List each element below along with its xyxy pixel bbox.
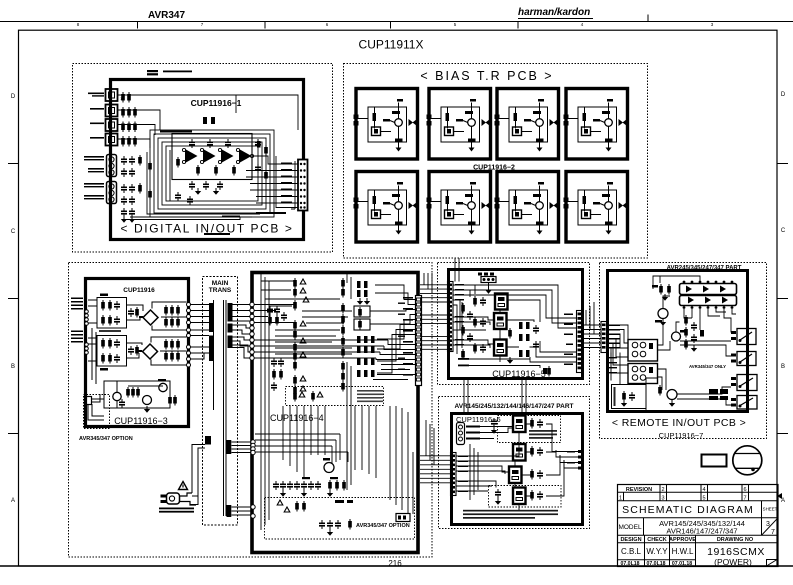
standby supply circuit xyxy=(104,379,177,413)
op-amp pin circles xyxy=(182,148,253,163)
trigger jack SW2 xyxy=(731,352,756,366)
input terminals left xyxy=(85,310,89,355)
relay snubber parts xyxy=(491,418,543,505)
buffer transistor Q31 xyxy=(672,330,687,341)
coax connector J5 xyxy=(84,155,117,177)
svg-text:CUP11916−5: CUP11916−5 xyxy=(492,369,546,379)
model row xyxy=(618,534,779,536)
transistor Q11 xyxy=(143,396,152,405)
schematic diagram row xyxy=(618,517,779,519)
svg-text:< BIAS T.R PCB >: < BIAS T.R PCB > xyxy=(420,69,553,83)
legend text lines xyxy=(463,510,558,519)
svg-text:C.B.L: C.B.L xyxy=(621,547,642,556)
status text block xyxy=(709,389,728,400)
svg-text:A: A xyxy=(11,498,15,504)
svg-text:C: C xyxy=(11,229,16,235)
svg-text:07.0L18: 07.0L18 xyxy=(646,561,665,567)
svg-text:A: A xyxy=(781,498,785,504)
chassis ground circle symbol xyxy=(733,446,762,475)
trigger board wiring xyxy=(456,424,578,510)
line filter block 2 xyxy=(97,336,139,371)
svg-text:CHECK: CHECK xyxy=(647,537,667,543)
remote input header xyxy=(601,322,620,353)
secondary winding W4 xyxy=(228,324,233,333)
trigger jack SW1 xyxy=(731,329,756,345)
supply caps for IC xyxy=(652,284,671,301)
AC input terminals xyxy=(250,302,255,518)
lower bus wires xyxy=(255,362,416,530)
svg-text:CUP11916−1: CUP11916−1 xyxy=(191,98,242,108)
wire bus CUP11916-5 to CUP11916-6 xyxy=(464,379,526,414)
relay PCB CUP11916-6 xyxy=(439,397,590,529)
wire stubs bias PCB to CUP11916-5 xyxy=(455,258,459,282)
ic sub-board outline xyxy=(172,134,252,180)
power supply PCB CUP11916 xyxy=(79,279,189,443)
fuse F5 group xyxy=(293,375,306,396)
output connector J7 xyxy=(281,160,308,211)
transformer core xyxy=(223,300,225,516)
wire bus CUP11916-5 to remote PCB xyxy=(583,302,602,348)
relay drive parts xyxy=(461,296,486,360)
relay RL1 xyxy=(495,294,508,310)
warning triangle xyxy=(179,482,188,490)
wire loops bus xyxy=(118,95,299,220)
svg-text:1: 1 xyxy=(619,496,622,502)
svg-text:< REMOTE IN/OUT PCB >: < REMOTE IN/OUT PCB > xyxy=(612,417,746,429)
buffer transistor Q30 xyxy=(655,309,668,326)
names row xyxy=(618,559,696,561)
aux connector bottom right xyxy=(396,514,410,522)
relay driver transistor Q20 xyxy=(323,458,334,473)
smoothing capacitors bank 1 xyxy=(164,305,180,328)
primary winding W2 xyxy=(209,336,214,362)
rectifier diodes top xyxy=(357,281,370,305)
input filter parts xyxy=(121,155,152,223)
svg-text:CUP11911X: CUP11911X xyxy=(359,38,424,52)
protection diodes xyxy=(507,322,539,364)
bias transistor cell Q2 xyxy=(427,89,491,160)
svg-text:REVISION: REVISION xyxy=(626,487,652,493)
svg-text:TRANS: TRANS xyxy=(209,287,232,294)
trigger jack SW3 xyxy=(731,375,757,391)
internal wiring harness xyxy=(254,273,416,395)
buffer transistor Q32 xyxy=(658,385,677,407)
svg-text:AVR145/245/132/144/146/147/247: AVR145/245/132/144/146/147/247 PART xyxy=(454,403,573,410)
wires transformer to CUP11916-4 xyxy=(232,305,253,516)
op-amp U4 xyxy=(239,149,252,163)
bridge rectifier D1 xyxy=(139,310,158,325)
optical connector J2 xyxy=(90,105,118,117)
control header CN8 xyxy=(451,453,469,496)
svg-text:B: B xyxy=(781,364,785,370)
svg-text:H.W.L: H.W.L xyxy=(672,547,694,556)
svg-text:SHEET: SHEET xyxy=(763,507,778,512)
svg-text:7: 7 xyxy=(743,496,746,502)
bottom cap C50 xyxy=(543,366,551,377)
svg-text:AVR345/347 ONLY: AVR345/347 ONLY xyxy=(689,364,726,369)
design/check/approve headers xyxy=(618,542,779,544)
speaker header CN6 xyxy=(478,273,496,294)
option relay dotted box xyxy=(489,486,562,508)
smoothing capacitors bank 2 xyxy=(164,339,180,362)
ic decoupling xyxy=(175,139,268,205)
op-amp U2 xyxy=(203,149,216,163)
svg-text:7: 7 xyxy=(771,529,775,536)
optical connector J1 xyxy=(88,89,118,101)
bias transistor cell Q7 xyxy=(495,172,559,243)
svg-text:3: 3 xyxy=(661,496,664,502)
aux output pins xyxy=(567,450,583,470)
relay RL2 xyxy=(494,313,507,329)
mains input labels xyxy=(71,298,83,343)
svg-text:AVR347: AVR347 xyxy=(148,10,185,21)
zone letters left xyxy=(11,92,786,504)
fuse F2 group xyxy=(293,297,309,311)
optical connector J4 xyxy=(90,134,118,146)
bias transistor cell Q3 xyxy=(495,89,559,160)
op-amp IC U11 xyxy=(680,296,737,309)
bias transistor cell Q1 xyxy=(354,89,418,160)
regulator sub-circuit dotted box xyxy=(286,387,384,406)
caps bank mid xyxy=(271,358,284,391)
bottom margin rule xyxy=(0,565,793,567)
net labels remote left xyxy=(609,357,617,373)
zone digits top xyxy=(77,22,714,27)
svg-text:B: B xyxy=(11,364,15,370)
revision rows xyxy=(618,491,779,493)
relay RL4 xyxy=(513,416,526,433)
power PCB CUP11916-4 xyxy=(252,273,418,553)
svg-text:5: 5 xyxy=(702,496,705,502)
bias transistor cell Q4 xyxy=(564,89,628,160)
relay PCB CUP11916-5 xyxy=(438,263,590,385)
plug rating text xyxy=(159,508,194,513)
transistor Q12 xyxy=(159,383,167,391)
top margin rule xyxy=(0,15,793,29)
small parts mid board xyxy=(203,117,286,235)
wire bus CUP11916-4 to CUP11916-5 xyxy=(420,273,448,349)
main transformer xyxy=(203,277,238,526)
remote in/out PCB CUP11916-7 xyxy=(600,263,767,441)
opto coupler bank U13 xyxy=(628,364,658,384)
relay RL7 xyxy=(513,488,526,505)
bias transistor cell Q5 xyxy=(354,172,418,243)
svg-text:D: D xyxy=(781,92,786,98)
op-amp IC U10 xyxy=(680,281,737,295)
note text above board xyxy=(147,70,192,75)
wires plug to transformer xyxy=(190,445,205,505)
svg-text:07.01.18: 07.01.18 xyxy=(672,561,692,567)
caps bank left xyxy=(267,306,287,326)
svg-text:SCHEMATIC DIAGRAM: SCHEMATIC DIAGRAM xyxy=(622,504,754,516)
decoupling caps C1-C8 xyxy=(120,92,137,147)
svg-text:4: 4 xyxy=(702,487,705,493)
relay board wiring xyxy=(453,285,577,368)
trigger input jacks xyxy=(457,423,481,445)
svg-text:07.0L18: 07.0L18 xyxy=(620,561,639,567)
transistor Q10 xyxy=(113,392,121,400)
svg-text:AVR146/147/247/347: AVR146/147/247/347 xyxy=(666,527,737,536)
option info dotted box xyxy=(498,416,561,443)
svg-text:(POWER): (POWER) xyxy=(714,557,752,567)
connector net labels xyxy=(398,297,413,376)
svg-text:C: C xyxy=(781,228,786,234)
svg-text:W.Y.Y: W.Y.Y xyxy=(646,547,668,556)
relay board input header CN5 xyxy=(448,282,465,352)
svg-text:CUP11916: CUP11916 xyxy=(123,287,155,294)
svg-text:216: 216 xyxy=(388,559,402,568)
relay output header CN7 xyxy=(564,311,583,373)
spare part rectangle symbol xyxy=(702,455,727,467)
fuse F1 group xyxy=(293,278,306,298)
zone ticks sides xyxy=(8,164,788,434)
primary tap block xyxy=(205,436,211,445)
svg-text:APPROVE: APPROVE xyxy=(669,537,696,543)
wires CUP11916-3 to transformer xyxy=(191,305,210,360)
svg-text:D: D xyxy=(11,94,16,100)
svg-text:AVR345/347 OPTION: AVR345/347 OPTION xyxy=(356,523,410,529)
option sub-board dotted xyxy=(265,498,415,540)
wires rectifier to terminals xyxy=(88,300,187,384)
line filter block 1 xyxy=(97,294,139,333)
bias transistor cell Q6 xyxy=(427,172,491,243)
snubber block xyxy=(354,306,370,330)
ir emitter box xyxy=(612,385,647,409)
optical connector J3 xyxy=(90,119,118,131)
svg-text:6: 6 xyxy=(743,487,746,493)
relay RL5 xyxy=(513,444,526,461)
svg-text:CUP11916−7: CUP11916−7 xyxy=(659,431,704,440)
svg-text:DRAWING NO: DRAWING NO xyxy=(717,537,754,543)
AC power plug P1 xyxy=(161,493,197,505)
fuse F6 column xyxy=(341,278,345,392)
secondary winding W3 xyxy=(228,303,233,322)
relay RL3 xyxy=(494,340,507,356)
remote board wiring xyxy=(607,276,736,412)
svg-text:DESIGN: DESIGN xyxy=(620,537,641,543)
bias transistor cell Q8 xyxy=(564,172,628,243)
primary winding W1 xyxy=(209,303,214,332)
label strip xyxy=(160,131,192,133)
center filter parts xyxy=(684,315,704,352)
fuse F3 group xyxy=(293,320,306,340)
svg-text:MAIN: MAIN xyxy=(212,280,229,287)
fuse F4 group xyxy=(293,338,306,371)
option connector box xyxy=(84,394,110,429)
relay RL6 xyxy=(509,467,522,484)
filter cap row xyxy=(273,477,346,497)
svg-text:2: 2 xyxy=(661,487,664,493)
wires to output connector xyxy=(246,156,298,209)
secondary winding W7 xyxy=(227,505,232,517)
secondary winding W6 xyxy=(227,440,232,454)
svg-text:CUP11916−3: CUP11916−3 xyxy=(114,416,168,426)
opto coupler bank U12 xyxy=(628,340,658,362)
diode matrix right xyxy=(357,336,375,377)
svg-text:AVR345/347 OPTION: AVR345/347 OPTION xyxy=(79,436,133,442)
svg-text:MODEL: MODEL xyxy=(618,524,642,531)
logo harman/kardon xyxy=(518,7,593,19)
output terminals to transformer xyxy=(187,303,191,368)
wire bus CUP11916-4 to CUP11916-6 xyxy=(420,420,451,483)
coax connector J6 xyxy=(84,182,117,204)
trigger jack SW4 xyxy=(731,396,757,410)
svg-text:3: 3 xyxy=(766,521,770,528)
right border arrow marker xyxy=(777,493,782,499)
bridge rectifier D2 xyxy=(136,344,158,359)
op-amp U1 xyxy=(185,149,198,163)
secondary winding W5 xyxy=(228,336,233,349)
op-amp U3 xyxy=(221,149,234,163)
pull-up labels xyxy=(458,358,469,366)
svg-text:harman/kardon: harman/kardon xyxy=(518,7,590,18)
output connector CN4 xyxy=(416,296,422,386)
